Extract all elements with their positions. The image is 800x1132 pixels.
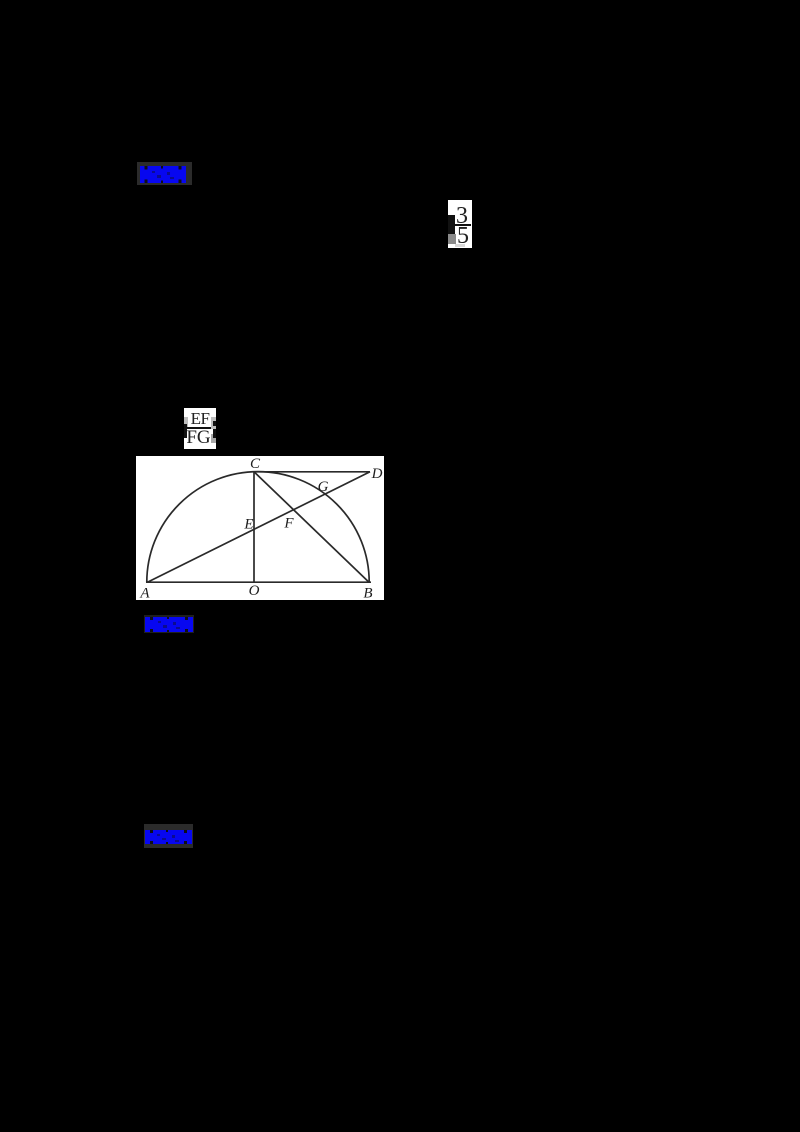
diameter AB: [146, 581, 371, 583]
black nubs at edges of EF/FG box: [184, 424, 187, 438]
fraction bar 3/5: [455, 224, 471, 226]
svg-text:A: A: [139, 585, 150, 600]
fraction EF/FG white box: [184, 408, 216, 449]
highlight box example 1: [137, 162, 192, 185]
svg-text:G: G: [318, 479, 329, 495]
FG denominator: [186, 428, 211, 447]
gray jpeg patches on EF/FG box: [184, 417, 188, 429]
fraction denominator 5: [457, 224, 469, 248]
svg-text:C: C: [250, 456, 261, 472]
gray jpeg strip at bottom of 3/5 box: [455, 244, 465, 247]
blue label example 1: [140, 166, 186, 183]
radius CO: [253, 472, 255, 582]
svg-text:B: B: [363, 585, 372, 600]
svg-text:D: D: [371, 466, 383, 482]
highlight box example 3: [144, 824, 193, 848]
svg-text:E: E: [243, 516, 253, 532]
equals fragment left of fraction: [448, 215, 455, 234]
svg-text:O: O: [249, 583, 260, 599]
chord CB: [254, 472, 369, 582]
fraction bar EF/FG: [187, 427, 211, 429]
highlight box example 2: [144, 615, 194, 633]
geometry figure white box: [136, 456, 384, 600]
svg-text:F: F: [283, 515, 294, 531]
fraction numerator 3: [456, 204, 468, 228]
semicircle arc ACB: [147, 472, 369, 583]
blue label example 2: [145, 617, 193, 632]
EF numerator: [190, 410, 210, 427]
segment AD: [147, 472, 370, 582]
segment CD: [254, 471, 370, 473]
blue label example 3: [145, 830, 192, 844]
fraction 3/5 white box: [448, 200, 472, 248]
